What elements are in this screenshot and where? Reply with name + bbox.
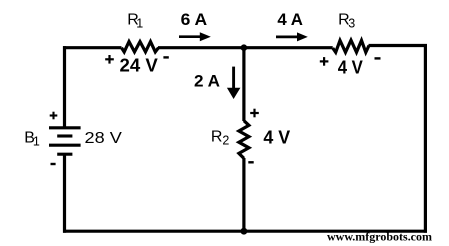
wire middle vertical upper (node A to R2)	[242, 48, 245, 121]
wire bottom horizontal	[63, 230, 427, 233]
polarity - (R3 right)	[375, 57, 381, 59]
wire top-left horizontal (battery to R1)	[63, 46, 122, 49]
wire left vertical lower (battery - to corner)	[63, 154, 66, 233]
wire top middle (R1 to node A to R3)	[158, 46, 333, 49]
polarity - (R2 bottom)	[248, 161, 253, 163]
node B junction dot	[241, 228, 248, 235]
wire right vertical	[424, 44, 427, 233]
wire left vertical upper (corner to battery +)	[63, 46, 66, 128]
svg-text:www.mfgrobots.com: www.mfgrobots.com	[327, 232, 432, 244]
polarity + (R2 top)	[250, 109, 259, 118]
polarity + (battery top)	[50, 112, 58, 120]
wire top-right horizontal (R3 to corner)	[369, 44, 428, 47]
polarity - (battery bottom)	[51, 163, 56, 165]
polarity + (R1 left)	[105, 55, 114, 64]
svg-text:24 V: 24 V	[120, 56, 158, 76]
svg-text:3: 3	[348, 17, 355, 31]
svg-text:1: 1	[136, 17, 143, 31]
battery B1 long plate 1 (+)	[49, 126, 81, 129]
svg-text:2: 2	[222, 134, 229, 148]
battery B1 short plate 1	[57, 134, 72, 137]
battery B1 long plate 2	[49, 144, 81, 147]
current arrow 4 A	[276, 32, 308, 41]
svg-text:4 V: 4 V	[338, 57, 363, 77]
svg-text:2 A: 2 A	[194, 73, 220, 91]
resistor R2 zigzag	[239, 121, 249, 159]
svg-text:28 V: 28 V	[85, 130, 123, 147]
polarity - (R1 right)	[163, 56, 168, 58]
current arrow 2 A (down)	[227, 67, 241, 99]
svg-text:R: R	[211, 129, 223, 146]
wire middle vertical lower (R2 to node B)	[242, 158, 245, 231]
svg-text:4 V: 4 V	[263, 128, 290, 148]
battery B1 short plate 2 (-)	[57, 153, 72, 156]
svg-text:1: 1	[33, 135, 40, 149]
resistor R3 zigzag	[333, 40, 369, 52]
svg-text:6 A: 6 A	[181, 11, 208, 29]
resistor R1 zigzag	[122, 42, 159, 52]
svg-text:4 A: 4 A	[277, 11, 303, 29]
current arrow 6 A	[179, 32, 211, 41]
polarity + (R3 left)	[320, 57, 329, 66]
node A junction dot	[241, 44, 248, 51]
